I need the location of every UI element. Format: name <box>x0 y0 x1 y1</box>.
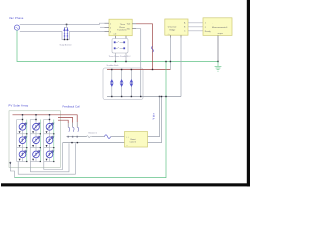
PV column 2 return wire green <box>39 120 41 162</box>
junction arrester bottom 1 <box>64 39 65 40</box>
PV cell source PV3 <box>46 122 55 130</box>
svg-text:Feedback Coil: Feedback Coil <box>63 106 81 109</box>
breaker terminal 2 <box>72 136 73 137</box>
snubber branch 1 <box>110 69 114 97</box>
svg-text:Convrtr: Convrtr <box>130 141 137 144</box>
svg-text:Phase: Phase <box>119 27 126 29</box>
svg-text:PV9: PV9 <box>52 150 55 152</box>
junction green at x115 <box>115 61 116 62</box>
junction PV bus col 1 <box>22 114 23 115</box>
svg-text:Three: Three <box>120 24 126 26</box>
svg-text:Measurements1: Measurements1 <box>212 26 228 29</box>
series resistor R1 <box>87 136 92 138</box>
DC+ bus maroon <box>107 69 170 71</box>
DC- bus grey <box>107 96 181 98</box>
block B inverter bridge <box>165 19 203 38</box>
green vertical return wire <box>15 62 167 178</box>
svg-text:Vbc: Vbc <box>127 28 130 30</box>
breaker glyph on measurement wire <box>151 46 153 52</box>
junction PV bus col 3 <box>49 114 50 115</box>
svg-text:+ -: + - <box>168 33 171 35</box>
junction arrester bottom 2 <box>67 39 68 40</box>
PV cell source PV7 <box>19 150 28 158</box>
junction DC- at A pin2 drop <box>140 96 141 97</box>
diode D7 bottom tie <box>17 161 27 163</box>
measurement box A2 <box>112 39 128 54</box>
wire phase B bottom <box>20 32 105 40</box>
DC feed lower bus <box>63 142 125 144</box>
breaker terminal 3 <box>77 136 78 137</box>
PV column 2 bypass diode wire <box>30 120 36 162</box>
diode D3 <box>44 133 54 135</box>
PV array box <box>9 111 61 168</box>
svg-text:- -: - - <box>126 144 128 146</box>
diode D8 bottom tie <box>30 161 40 163</box>
svg-text:PV6: PV6 <box>52 136 55 138</box>
svg-text:Transformr: Transformr <box>117 30 127 32</box>
wire A2 to green bus <box>115 53 126 62</box>
RLC row 1 <box>114 41 116 43</box>
wire stub pin2 <box>100 26 105 28</box>
wire B pin2 down to DC- bus <box>180 38 182 97</box>
svg-text:PV3: PV3 <box>52 122 55 124</box>
AC source V1 <box>14 25 19 30</box>
breaker terminal 1 <box>68 136 69 137</box>
PV negative drop wire <box>10 162 14 178</box>
wire CB to block D <box>111 136 125 138</box>
block A three-phase transformer T1 <box>105 19 137 38</box>
junction green bus at return <box>165 61 166 62</box>
frame shadow bottom <box>1 183 250 186</box>
junction lower bus 2 <box>77 142 78 143</box>
wire phase A top <box>20 23 105 24</box>
svg-text:PV Solar Array: PV Solar Array <box>9 104 29 108</box>
snubber box <box>103 68 143 100</box>
phase drop 2 <box>72 123 74 128</box>
wire A pin1 to DC bus maroon <box>136 24 153 70</box>
PV string phase line 3 <box>58 120 68 123</box>
junction green at x170 <box>170 61 171 62</box>
svg-text:V dc+: V dc+ <box>152 112 155 119</box>
svg-text:Breaker 1: Breaker 1 <box>89 132 99 134</box>
junction DC+ at A pin1 drop <box>152 69 153 70</box>
wire DC link to block D pin2 <box>148 97 162 143</box>
PV cell source PV2 <box>33 122 42 130</box>
diode D9 bottom tie <box>44 161 54 163</box>
diode D1 <box>17 133 27 135</box>
arrow on negative drop <box>9 162 11 164</box>
svg-text:Surge Arrester: Surge Arrester <box>60 44 73 47</box>
junction lower bus 1 <box>71 142 72 143</box>
svg-text:Boost: Boost <box>131 138 137 141</box>
svg-text:Snubber Bank: Snubber Bank <box>107 64 119 67</box>
RLC row 2 <box>114 47 116 49</box>
block C measurements scope <box>203 18 232 62</box>
PV column 2 string wire <box>35 115 37 162</box>
diode D2 <box>30 133 40 135</box>
diode D5 <box>30 147 40 149</box>
PV column 1 string wire <box>22 115 24 162</box>
PV column 3 bypass diode wire <box>44 120 50 162</box>
svg-text:Universal: Universal <box>168 27 177 29</box>
PV string phase line 1 <box>61 115 78 122</box>
breaker blade 2 <box>73 127 74 132</box>
PV column 1 return wire green <box>26 120 28 162</box>
PV cell source PV9 <box>46 150 55 158</box>
phase drop 1 <box>76 122 78 127</box>
junction PV bus col 2 <box>35 114 36 115</box>
PV cell source PV4 <box>19 136 28 144</box>
junction DC- at x162.5 <box>161 96 162 97</box>
wire to breaker CB <box>92 136 105 138</box>
wire B pin1 down to DC+ bus <box>169 38 171 70</box>
surge arrester 1 <box>64 27 66 39</box>
svg-text:Bridge: Bridge <box>170 29 177 31</box>
wire A pin2 down to lower bus grey <box>136 29 141 97</box>
junction DC- bus at green crossing <box>165 96 166 97</box>
phase drop 3 <box>67 123 69 127</box>
PV+ bus maroon <box>13 114 61 116</box>
snubber branch 2 <box>120 69 124 97</box>
junction green at x126 <box>125 61 126 62</box>
wire arrester drop <box>65 24 68 27</box>
svg-text:scope: scope <box>218 33 224 35</box>
PV cell source PV5 <box>33 136 42 144</box>
frame shadow right <box>247 0 250 186</box>
ground symbol <box>215 62 222 72</box>
diode D4 <box>17 147 27 149</box>
DC feed upper bus <box>67 136 87 138</box>
wire DC link to block D pin1 <box>148 97 160 137</box>
svg-text:PV8: PV8 <box>38 150 41 152</box>
svg-text:Ready: Ready <box>205 31 211 33</box>
PV bottom staircase 1 <box>18 143 75 174</box>
block D boost converter <box>125 132 148 148</box>
svg-text:Vac Phase: Vac Phase <box>9 16 24 20</box>
wire green source to ground bus <box>17 30 218 61</box>
svg-text:PV2: PV2 <box>38 122 41 124</box>
surge arrester 2 <box>67 27 69 39</box>
svg-text:PV5: PV5 <box>38 136 41 138</box>
svg-text:PV7: PV7 <box>25 150 28 152</box>
snubber branch 3 <box>130 69 134 97</box>
PV cell source PV6 <box>46 136 55 144</box>
PV column 3 string wire <box>49 115 51 162</box>
svg-text:PV4: PV4 <box>25 136 28 138</box>
PV column 3 return wire green <box>53 120 55 162</box>
diode D6 <box>44 147 54 149</box>
breaker CB blue <box>104 135 110 139</box>
PV string phase line 2 <box>58 118 73 123</box>
breaker blade 1 <box>68 127 69 132</box>
breaker blade 3 <box>77 127 78 132</box>
junction top wire at arrester <box>66 24 68 26</box>
PV bottom staircase 3 <box>44 143 63 170</box>
PV cell source PV1 <box>19 122 28 130</box>
junction DC- at x153.5 <box>159 96 160 97</box>
junction green at x218 <box>217 61 218 62</box>
svg-text:Three-Phase Parallel RLC: Three-Phase Parallel RLC <box>109 55 132 58</box>
PV cell source PV8 <box>33 150 42 158</box>
PV bottom staircase 2 <box>31 143 70 172</box>
svg-text:PV1: PV1 <box>25 122 28 124</box>
PV column 1 bypass diode wire <box>17 120 23 162</box>
